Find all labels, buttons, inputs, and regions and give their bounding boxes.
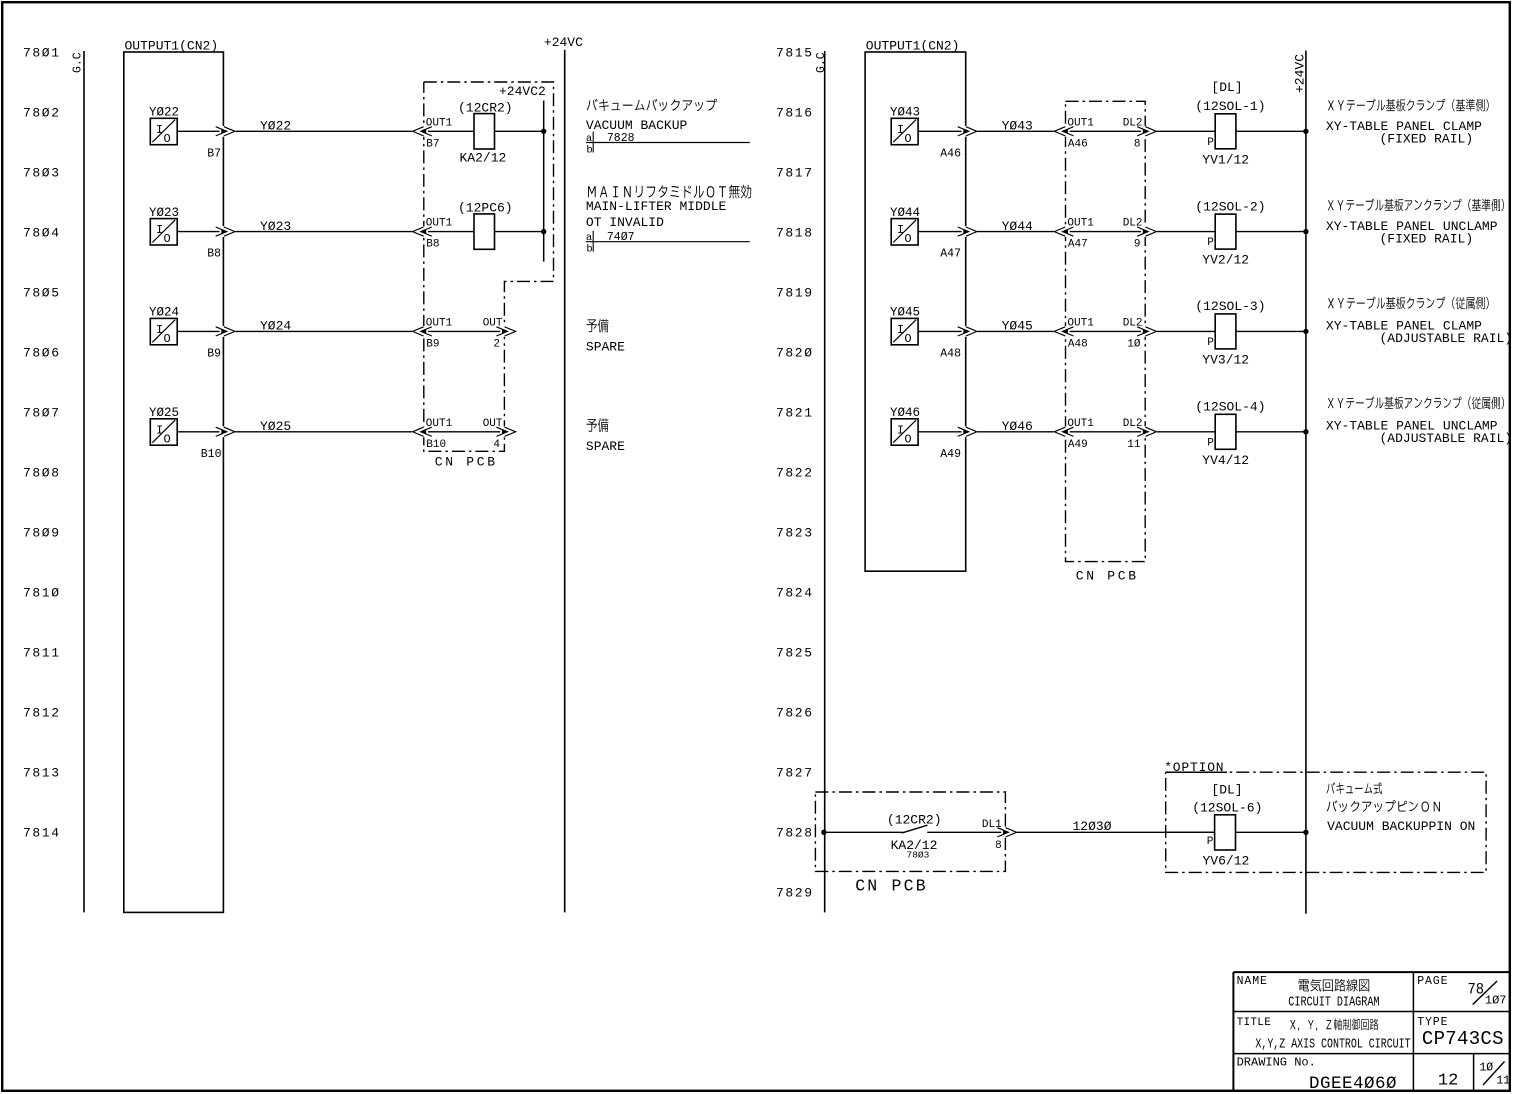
svg-text:O: O	[904, 332, 911, 346]
svg-text:YV3/12: YV3/12	[1202, 352, 1249, 367]
note: spare (JP) row 7805	[587, 319, 609, 333]
svg-text:12Ø3Ø: 12Ø3Ø	[1073, 819, 1112, 834]
svg-text:1Ø7: 1Ø7	[1485, 994, 1507, 1008]
arrow out of OUTPUT1 (Y022)	[220, 126, 236, 137]
note: spare (JP) row 7807	[587, 418, 609, 432]
arrow out of CN PCB (OUT 4)	[500, 426, 516, 437]
svg-text:78Ø5: 78Ø5	[23, 286, 61, 301]
svg-text:7829: 7829	[776, 886, 814, 901]
output block Y046 (I/O module, right page)	[890, 406, 920, 446]
note: xy-table label (JP) row 4	[1328, 396, 1504, 409]
svg-text:I: I	[156, 323, 163, 337]
option box outline	[1166, 772, 1486, 872]
svg-text:NAME: NAME	[1237, 975, 1268, 988]
svg-text:B9: B9	[426, 338, 439, 350]
svg-text:YØ23: YØ23	[260, 219, 291, 234]
svg-text:A49: A49	[1068, 439, 1088, 451]
svg-text:O: O	[904, 232, 911, 246]
svg-text:b: b	[586, 244, 592, 256]
arrow out of CN PCB (DL2/11)	[1141, 426, 1157, 437]
solenoid YV1/12 body	[1215, 114, 1236, 149]
net label +24VC (right page, rotated)	[1293, 54, 1308, 93]
svg-text:YØ22: YØ22	[260, 119, 291, 134]
svg-text:OUT1: OUT1	[1067, 218, 1094, 230]
arrow out of OUTPUT1 (Y024)	[220, 326, 236, 337]
arrow out of CN PCB (DL2/8)	[1141, 126, 1157, 137]
svg-text:P: P	[1207, 337, 1214, 349]
svg-text:P: P	[1207, 137, 1214, 149]
arrow into CN PCB (A49/OUT1)	[1054, 426, 1070, 437]
svg-text:I: I	[897, 223, 904, 237]
svg-text:781Ø: 781Ø	[23, 586, 61, 601]
note: vacuum type (JP)	[1327, 782, 1383, 794]
svg-text:78Ø6: 78Ø6	[23, 346, 61, 361]
output block Y024 (I/O module, left page)	[149, 306, 179, 346]
junction: YV4/12 to +24VC	[1303, 429, 1308, 434]
arrow out of CN PCB (OUT 2)	[500, 326, 516, 337]
svg-text:VACUUM BACKUP: VACUUM BACKUP	[586, 118, 688, 133]
svg-text:7814: 7814	[23, 826, 61, 841]
svg-text:TITLE: TITLE	[1237, 1017, 1272, 1029]
junction: KA2/12 to +24VC2	[541, 129, 546, 134]
svg-text:7828: 7828	[776, 826, 814, 841]
wire: +24VC2 rail	[543, 101, 545, 262]
line numbers 7815-7829	[776, 46, 814, 901]
svg-text:7816: 7816	[776, 106, 814, 121]
svg-text:CP743CS: CP743CS	[1422, 1028, 1504, 1050]
svg-text:VACUUM BACKUPPIN ON: VACUUM BACKUPPIN ON	[1327, 819, 1475, 834]
arrow out of OUTPUT1 (Y046)	[962, 426, 978, 437]
arrow into CN PCB (A46/OUT1)	[1054, 126, 1070, 137]
svg-text:OUT1: OUT1	[426, 117, 453, 129]
wire: G.C bus (left page)	[83, 51, 85, 912]
svg-text:78Ø1: 78Ø1	[23, 46, 61, 61]
svg-text:(ADJUSTABLE RAIL): (ADJUSTABLE RAIL)	[1380, 431, 1513, 446]
svg-text:YØ44: YØ44	[1002, 219, 1033, 234]
svg-text:I: I	[156, 423, 163, 437]
cross-ref a/7407/b	[586, 231, 750, 256]
wire Y045 to +24VC	[1236, 330, 1306, 332]
wire Y046 to +24VC	[1236, 431, 1306, 433]
svg-text:7815: 7815	[776, 46, 814, 61]
wire: +24VC bus (left page)	[564, 50, 566, 913]
coil 12PC6 body	[474, 214, 495, 249]
svg-text:78Ø8: 78Ø8	[23, 466, 61, 481]
arrow into CN PCB (B9/OUT1)	[412, 326, 428, 337]
svg-text:+24VC: +24VC	[544, 35, 583, 50]
svg-text:A46: A46	[1068, 138, 1088, 150]
svg-text:OUT: OUT	[483, 317, 503, 329]
svg-text:(12SOL-3): (12SOL-3)	[1195, 299, 1265, 314]
svg-text:CN PCB: CN PCB	[1076, 569, 1139, 584]
junction: YV1/12 to +24VC	[1303, 129, 1308, 134]
note: xy-table label (JP) row 1	[1328, 99, 1489, 112]
svg-text:I: I	[897, 123, 904, 137]
note: MAIN-lifter middle OT invalid (JP)	[588, 185, 751, 199]
relay coil KA2/12 body	[474, 114, 495, 149]
svg-text:OT INVALID: OT INVALID	[586, 215, 664, 230]
title (JP): X,Y,Z axis control circuit	[1290, 1019, 1378, 1031]
svg-text:OUT1: OUT1	[426, 317, 453, 329]
svg-text:P: P	[1207, 237, 1214, 249]
wire Y025 rung (left page)	[177, 431, 512, 433]
svg-text:b: b	[586, 144, 592, 156]
svg-text:[DL]: [DL]	[1211, 782, 1242, 797]
connector OUTPUT1(CN2) box (right page)	[865, 52, 966, 571]
svg-text:A48: A48	[1068, 338, 1088, 350]
svg-text:1Ø: 1Ø	[1127, 338, 1141, 350]
output block Y022 (I/O module, left page)	[149, 106, 179, 146]
svg-text:G.C: G.C	[72, 52, 85, 73]
net label G.C (left page)	[72, 52, 85, 73]
svg-text:YØ23: YØ23	[149, 206, 179, 220]
svg-text:(FIXED RAIL): (FIXED RAIL)	[1380, 231, 1474, 246]
svg-text:KA2/12: KA2/12	[460, 151, 507, 166]
svg-text:7825: 7825	[776, 646, 814, 661]
svg-text:+24VC2: +24VC2	[499, 84, 546, 99]
note: xy-table label (JP) row 2	[1328, 198, 1504, 211]
svg-text:78Ø4: 78Ø4	[23, 226, 61, 241]
svg-text:(FIXED RAIL): (FIXED RAIL)	[1380, 131, 1474, 146]
svg-text:B7: B7	[207, 147, 221, 160]
svg-text:OUT1: OUT1	[426, 418, 453, 430]
solenoid YV3/12 body	[1215, 314, 1236, 349]
svg-text:78Ø3: 78Ø3	[907, 850, 930, 861]
arrow into CN PCB (A47/OUT1)	[1054, 226, 1070, 237]
arrow out of OUTPUT1 (Y045)	[962, 326, 978, 337]
svg-text:OUT1: OUT1	[1067, 117, 1094, 129]
svg-text:YØ44: YØ44	[890, 206, 920, 220]
arrow out of OUTPUT1 (Y023)	[220, 226, 236, 237]
output block Y045 (I/O module, right page)	[890, 306, 920, 346]
connector OUTPUT1(CN2) box (left page)	[124, 52, 224, 912]
svg-text:782Ø: 782Ø	[776, 346, 814, 361]
svg-text:YV1/12: YV1/12	[1202, 152, 1249, 167]
svg-text:78Ø7: 78Ø7	[23, 406, 61, 421]
svg-text:7813: 7813	[23, 766, 61, 781]
svg-text:7819: 7819	[776, 286, 814, 301]
svg-text:O: O	[164, 332, 171, 346]
wire: net 12030	[1017, 831, 1306, 833]
svg-text:78Ø9: 78Ø9	[23, 526, 61, 541]
svg-text:G.C: G.C	[815, 52, 828, 73]
wire Y043 rung (right page)	[918, 130, 1215, 132]
wire: G.C bus (right page)	[824, 51, 826, 912]
svg-text:YØ24: YØ24	[260, 319, 291, 334]
svg-text:7818: 7818	[776, 226, 814, 241]
svg-text:7817: 7817	[776, 166, 814, 181]
svg-text:(12SOL-6): (12SOL-6)	[1192, 800, 1262, 815]
pcb outline CN PCB (right page)	[1066, 101, 1146, 561]
svg-text:A49: A49	[940, 448, 961, 461]
wire Y044 to +24VC	[1236, 231, 1306, 233]
svg-text:11: 11	[1127, 439, 1141, 451]
svg-text:7821: 7821	[776, 406, 814, 421]
option box label underline	[1166, 771, 1227, 773]
svg-text:I: I	[897, 323, 904, 337]
svg-text:9: 9	[1134, 239, 1141, 251]
svg-text:78Ø3: 78Ø3	[23, 166, 61, 181]
svg-text:I: I	[156, 123, 163, 137]
arrow into CN PCB (A48/OUT1)	[1054, 326, 1070, 337]
note: backup pin ON (JP)	[1327, 800, 1440, 812]
svg-text:a: a	[586, 133, 592, 145]
pcb outline CN PCB (left page)	[424, 82, 554, 451]
svg-text:A47: A47	[1068, 239, 1088, 251]
wire Y022 rung (left page)	[177, 130, 544, 132]
svg-text:2: 2	[493, 338, 500, 350]
cross-ref a/7828/b	[586, 132, 750, 157]
output block Y044 (I/O module, right page)	[890, 206, 920, 246]
svg-text:PAGE: PAGE	[1417, 975, 1448, 988]
svg-text:1Ø: 1Ø	[1479, 1062, 1493, 1075]
note: xy-table label (JP) row 3	[1328, 297, 1489, 310]
svg-text:CIRCUIT DIAGRAM: CIRCUIT DIAGRAM	[1288, 994, 1379, 1010]
relay contact KA2/12 blade	[902, 825, 928, 833]
svg-text:a: a	[586, 232, 592, 244]
svg-text:B8: B8	[207, 248, 221, 261]
svg-text:X,Y,Z AXIS CONTROL CIRCUIT: X,Y,Z AXIS CONTROL CIRCUIT	[1255, 1037, 1410, 1053]
junction: YV3/12 to +24VC	[1303, 329, 1308, 334]
wire Y043 to +24VC	[1236, 130, 1306, 132]
line numbers 7801-7814	[23, 46, 61, 841]
svg-text:7824: 7824	[776, 586, 814, 601]
svg-text:[DL]: [DL]	[1211, 80, 1242, 95]
arrow out of CN PCB (DL2/10)	[1141, 326, 1157, 337]
arrow into CN PCB (B7/OUT1)	[412, 126, 428, 137]
svg-text:OUTPUT1(CN2): OUTPUT1(CN2)	[866, 39, 960, 54]
junction: YV2/12 to +24VC	[1303, 229, 1308, 234]
svg-text:(ADJUSTABLE RAIL): (ADJUSTABLE RAIL)	[1380, 331, 1513, 346]
wire 7828: G.C to contact	[825, 831, 903, 833]
svg-text:OUT1: OUT1	[1067, 317, 1094, 329]
svg-text:I: I	[156, 223, 163, 237]
arrow out of OUTPUT1 (Y025)	[220, 426, 236, 437]
svg-text:SPARE: SPARE	[586, 340, 625, 355]
solenoid YV2/12 body	[1215, 214, 1236, 249]
svg-text:P: P	[1207, 836, 1214, 848]
svg-text:YV2/12: YV2/12	[1202, 253, 1249, 268]
net label G.C (right page)	[815, 52, 828, 73]
svg-text:B7: B7	[426, 138, 439, 150]
svg-text:O: O	[904, 132, 911, 146]
svg-text:(12SOL-4): (12SOL-4)	[1195, 400, 1265, 415]
svg-text:O: O	[164, 432, 171, 446]
svg-text:O: O	[904, 432, 911, 446]
svg-text:7811: 7811	[23, 646, 61, 661]
svg-text:A48: A48	[940, 347, 961, 360]
output block Y043 (I/O module, right page)	[890, 106, 920, 146]
svg-text:B10: B10	[201, 448, 222, 461]
wire Y023 rung (left page)	[177, 231, 544, 233]
solenoid YV4/12 body	[1215, 414, 1236, 449]
svg-text:O: O	[164, 232, 171, 246]
svg-text:(12CR2): (12CR2)	[887, 812, 942, 827]
svg-text:YØ46: YØ46	[1002, 419, 1033, 434]
arrow out of CN PCB (DL1/8)	[1001, 827, 1017, 838]
svg-text:B10: B10	[426, 439, 446, 451]
svg-text:OUT1: OUT1	[426, 218, 453, 230]
svg-text:YV4/12: YV4/12	[1202, 453, 1249, 468]
solenoid YV6/12 body	[1215, 815, 1236, 850]
svg-text:OUT: OUT	[483, 418, 503, 430]
svg-text:8: 8	[1134, 138, 1141, 150]
junction: 12PC6 to +24VC2	[541, 229, 546, 234]
svg-text:YØ25: YØ25	[260, 419, 291, 434]
svg-text:DL1: DL1	[982, 819, 1002, 831]
svg-text:7827: 7827	[776, 766, 814, 781]
svg-text:A47: A47	[940, 248, 961, 261]
output block Y023 (I/O module, left page)	[149, 206, 179, 246]
svg-text:7812: 7812	[23, 706, 61, 721]
svg-text:O: O	[164, 132, 171, 146]
svg-text:OUTPUT1(CN2): OUTPUT1(CN2)	[125, 39, 219, 54]
svg-text:MAIN-LIFTER MIDDLE: MAIN-LIFTER MIDDLE	[586, 199, 727, 214]
svg-text:B9: B9	[207, 347, 221, 360]
svg-text:(12SOL-2): (12SOL-2)	[1195, 199, 1265, 214]
svg-text:I: I	[897, 423, 904, 437]
svg-text:P: P	[1207, 437, 1214, 449]
arrow into CN PCB (B8/OUT1)	[412, 226, 428, 237]
svg-text:CN PCB: CN PCB	[855, 877, 928, 896]
pcb outline CN PCB (row 7828)	[815, 792, 1005, 871]
svg-text:YØ43: YØ43	[1002, 119, 1033, 134]
svg-text:7822: 7822	[776, 466, 814, 481]
arrow out of OUTPUT1 (Y043)	[962, 126, 978, 137]
note: vacuum backup (JP)	[587, 99, 717, 112]
title block grid	[1233, 972, 1510, 1091]
sheet fraction 10/11	[1479, 1062, 1510, 1088]
junction: G.C row 7828	[821, 830, 826, 835]
wire: +24VC bus (right page)	[1305, 51, 1307, 914]
wire Y024 rung (left page)	[177, 330, 512, 332]
wire 7828 inside option box	[1166, 831, 1215, 833]
wire Y044 rung (right page)	[918, 231, 1215, 233]
svg-text:OUT1: OUT1	[1067, 418, 1094, 430]
svg-text:SPARE: SPARE	[586, 439, 625, 454]
svg-text:DGEE4Ø6Ø: DGEE4Ø6Ø	[1309, 1074, 1397, 1094]
svg-text:11: 11	[1496, 1074, 1510, 1087]
wire 7828: contact to CN PCB edge	[927, 831, 1005, 833]
arrow out of OUTPUT1 (Y044)	[962, 226, 978, 237]
svg-text:DRAWING No.: DRAWING No.	[1237, 1056, 1316, 1070]
svg-text:78Ø2: 78Ø2	[23, 106, 61, 121]
arrow out of CN PCB (DL2/9)	[1141, 226, 1157, 237]
svg-text:B8: B8	[426, 239, 439, 251]
svg-text:4: 4	[493, 439, 500, 451]
junction: YV6/12 to +24VC	[1303, 830, 1308, 835]
svg-text:YØ45: YØ45	[1002, 319, 1033, 334]
svg-text:A46: A46	[940, 147, 961, 160]
svg-text:CN PCB: CN PCB	[435, 455, 498, 470]
wire Y045 rung (right page)	[918, 330, 1215, 332]
svg-text:7826: 7826	[776, 706, 814, 721]
svg-text:(12SOL-1): (12SOL-1)	[1195, 99, 1265, 114]
output block Y025 (I/O module, left page)	[149, 406, 179, 446]
wire Y046 rung (right page)	[918, 431, 1215, 433]
svg-text:12: 12	[1438, 1072, 1458, 1091]
arrow into CN PCB (B10/OUT1)	[412, 426, 428, 437]
page fraction slash	[1473, 981, 1497, 1005]
title name (JP): circuit diagram	[1299, 979, 1370, 992]
svg-text:YV6/12: YV6/12	[1203, 853, 1250, 868]
svg-text:7823: 7823	[776, 526, 814, 541]
svg-text:8: 8	[995, 840, 1002, 852]
